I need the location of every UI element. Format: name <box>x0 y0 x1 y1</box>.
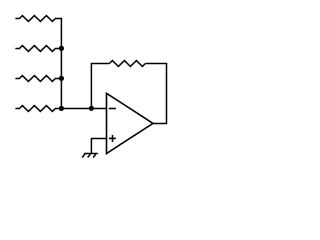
op-amp plus label <box>109 135 116 142</box>
node junction feedback <box>89 106 94 111</box>
node junction R3 <box>59 76 64 81</box>
wire feedback right vertical <box>145 64 166 124</box>
node junction R2 <box>59 46 64 51</box>
resistor R4 <box>15 106 61 112</box>
ground <box>82 153 98 157</box>
resistor R1 <box>15 16 61 109</box>
node junction R4 <box>59 106 64 111</box>
resistor R2 <box>15 46 61 52</box>
wire to inverting input <box>61 108 106 110</box>
wire to non-inverting input <box>91 139 106 154</box>
resistor R5 feedback <box>109 61 145 67</box>
op-amp U1 <box>107 93 154 153</box>
op-amp minus label <box>109 108 116 110</box>
wire feedback left vertical <box>91 64 109 109</box>
resistor R3 <box>15 76 61 82</box>
